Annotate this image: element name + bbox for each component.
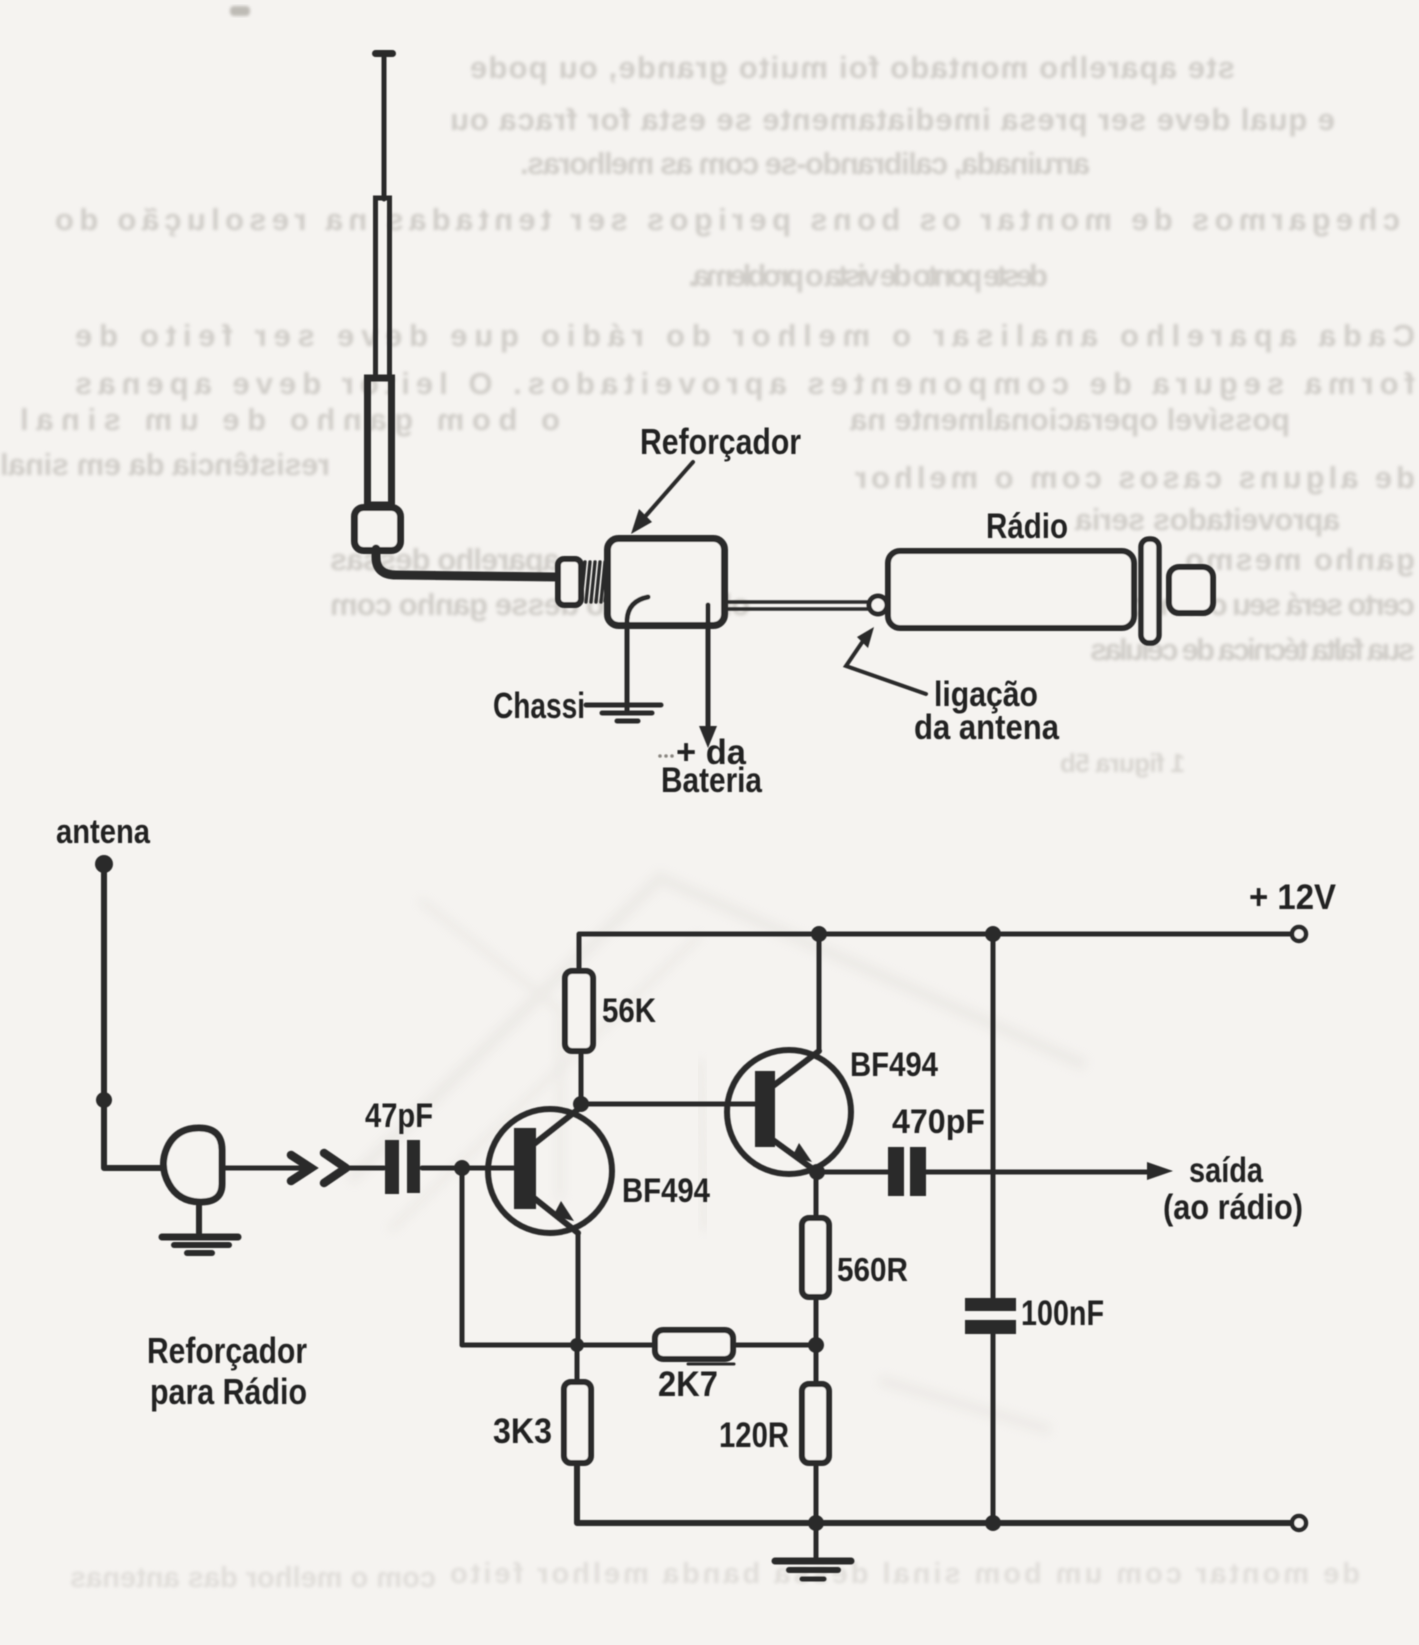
svg-text:Reforçador: Reforçador [640, 421, 801, 462]
signal arrowhead [222, 1166, 308, 1171]
double cable to radio [727, 600, 870, 604]
svg-text:com o melhor das antenas: com o melhor das antenas [70, 1562, 436, 1594]
label arrow to booster [643, 462, 693, 519]
Q2 collector lead [773, 1051, 819, 1086]
+12V open terminal [1292, 927, 1306, 941]
antenna terminal dot [95, 855, 113, 873]
label + da Bateria [658, 754, 662, 758]
ground symbol [775, 1558, 851, 1565]
svg-text:da antena: da antena [914, 708, 1059, 747]
svg-text:100nF: 100nF [1021, 1294, 1104, 1333]
svg-text:Reforçador: Reforçador [147, 1330, 307, 1371]
Q1 base bar [514, 1128, 536, 1209]
wire chevron to C1 [348, 1166, 384, 1171]
svg-text:47pF: 47pF [365, 1097, 433, 1135]
connector symbol (plug) [163, 1128, 222, 1202]
radio end plate [1141, 539, 1159, 643]
svg-text:Cada aparelho analisar o melho: Cada aparelho analisar o melhor do rádio… [75, 318, 1415, 353]
battery wire with arrow [706, 605, 711, 728]
collector node dot [573, 1096, 589, 1112]
antenna middle segment [376, 198, 390, 378]
svg-text:(ao rádio): (ao rádio) [1163, 1188, 1303, 1227]
svg-text:para Rádio: para Rádio [150, 1371, 307, 1412]
emitter node dot [809, 1164, 825, 1180]
capacitor C1 47pF plates [385, 1140, 399, 1194]
antenna thin rod [382, 55, 387, 199]
svg-text:560R: 560R [837, 1251, 908, 1288]
Q1 collector lead [534, 1107, 581, 1144]
svg-text:chegarmos de montar os bons pe: chegarmos de montar os bons perigos ser … [55, 202, 1400, 237]
antenna lead wire [104, 868, 172, 1168]
connector ground symbol [162, 1234, 238, 1241]
transistor Q1 circle [488, 1109, 612, 1233]
svg-text:3K3: 3K3 [493, 1412, 552, 1451]
antenna base box [355, 508, 401, 551]
connector ground stem [196, 1202, 202, 1236]
svg-text:ste aparelho montado foi muito: ste aparelho montado foi muito grande, o… [470, 50, 1235, 85]
transistor Q2 circle [727, 1050, 851, 1174]
junction dot ground rail R5 [808, 1515, 824, 1531]
svg-text:possível operacionalmente na: possível operacionalmente na [849, 402, 1290, 437]
2K7 scan artifact line [688, 1363, 734, 1366]
wire R3 to node [814, 1297, 819, 1345]
wire base node down to feedback [460, 1168, 465, 1345]
leader line from 'ligação' label [846, 641, 926, 694]
resistor R1 56K [565, 971, 593, 1051]
resistor R4 2K7 [655, 1330, 733, 1359]
svg-text:+ 12V: + 12V [1249, 878, 1337, 917]
wire node to R5 [814, 1345, 819, 1384]
svg-text:1 figura 5b: 1 figura 5b [1060, 748, 1185, 778]
small scan mark top [230, 6, 250, 16]
faint ghost image streaks in schematic area [350, 878, 1085, 1430]
Q2 emitter arrow [792, 1143, 812, 1162]
svg-text:120R: 120R [719, 1416, 789, 1455]
svg-text:Bateria: Bateria [661, 761, 762, 800]
wire emitter node to R3 [814, 1172, 819, 1218]
svg-text:saída: saída [1189, 1151, 1263, 1190]
svg-text:de alguns casos com o melhor: de alguns casos com o melhor [855, 460, 1415, 495]
junction dot C3 branch at rail [985, 926, 1001, 942]
Q2 emitter lead [773, 1140, 817, 1172]
wire C3 bottom to ground rail [991, 1334, 996, 1523]
booster box (Reforçador) [608, 539, 725, 626]
ground open terminal [1292, 1516, 1306, 1530]
junction dot ground rail C3 [985, 1515, 1001, 1531]
svg-text:arruinada, calibrando-se com a: arruinada, calibrando-se com as melhoras… [520, 146, 1090, 181]
Q1 emitter arrow [553, 1201, 574, 1221]
svg-text:BF494: BF494 [850, 1046, 938, 1084]
output wire saída [926, 1170, 1148, 1175]
Q1 emitter lead [534, 1198, 578, 1233]
svg-text:2K7: 2K7 [658, 1365, 718, 1404]
svg-text:antena: antena [56, 813, 151, 851]
radio knob [1169, 567, 1213, 613]
Q2 base bar [755, 1071, 775, 1147]
wire R5 to ground rail [814, 1463, 819, 1523]
plug housing [558, 559, 581, 605]
svg-text:56K: 56K [602, 992, 656, 1030]
resistor R3 560R [802, 1218, 829, 1297]
svg-text:de montar com um bom sinal des: de montar com um bom sinal dessa banda m… [450, 1558, 1360, 1590]
svg-text:BF494: BF494 [622, 1172, 710, 1210]
svg-text:ganho mesmo: ganho mesmo [1185, 542, 1415, 577]
feedback wire left [462, 1343, 655, 1348]
wire R2 to ground rail [577, 1463, 1292, 1523]
capacitor C2 470pF plates [888, 1147, 904, 1196]
antenna cable to booster [376, 549, 557, 577]
wire R1 top to +12V rail [579, 934, 1292, 971]
svg-text:470pF: 470pF [892, 1103, 985, 1141]
resistor R2 3K3 [564, 1382, 591, 1463]
svg-text:aproveitados seria: aproveitados seria [1074, 502, 1340, 537]
plug crimp hatch lines [581, 562, 609, 602]
input chevron [324, 1153, 346, 1183]
wire 2K7 to node [733, 1343, 816, 1348]
wire 100nF branch [991, 934, 996, 1299]
wire node to R1 [579, 1052, 584, 1104]
wire to arrow [222, 1166, 292, 1171]
ground stem [814, 1523, 819, 1559]
antenna lower segment [368, 378, 392, 505]
junction dot on antenna wire [96, 1092, 112, 1108]
svg-text:Rádio: Rádio [986, 507, 1068, 546]
feedback node dot [808, 1337, 824, 1353]
junction dot emitter/feedback [570, 1338, 584, 1352]
chassis wire [627, 597, 648, 711]
antenna connection node circle on radio [869, 596, 887, 614]
resistor R5 120R [802, 1384, 829, 1463]
chassis ground symbol [586, 703, 661, 708]
svg-text:resistência da em sinal: resistência da em sinal [0, 447, 330, 482]
wire rail to Q2 collector [817, 934, 822, 1051]
output arrowhead [1147, 1162, 1173, 1180]
Q1 emitter wire down [576, 1233, 581, 1345]
wire C1 to Q1 base [422, 1166, 516, 1171]
junction dot Q2 collector at rail [811, 926, 827, 942]
radio body [888, 551, 1134, 628]
svg-text:Chassi: Chassi [493, 685, 585, 726]
antenna tip bar [372, 50, 396, 57]
junction dot base node [454, 1160, 470, 1176]
wire emitter to R2 [575, 1345, 580, 1382]
wire Q1 collector node to Q2 base [581, 1102, 756, 1107]
wire emitter node to C2 [817, 1170, 888, 1175]
svg-text:deste ponto de vista o problem: deste ponto de vista o problema. [688, 258, 1048, 293]
capacitor C3 100nF plates [965, 1298, 1016, 1311]
svg-text:e qual deve ser presa imediata: e qual deve ser presa imediatamente se e… [450, 102, 1335, 137]
